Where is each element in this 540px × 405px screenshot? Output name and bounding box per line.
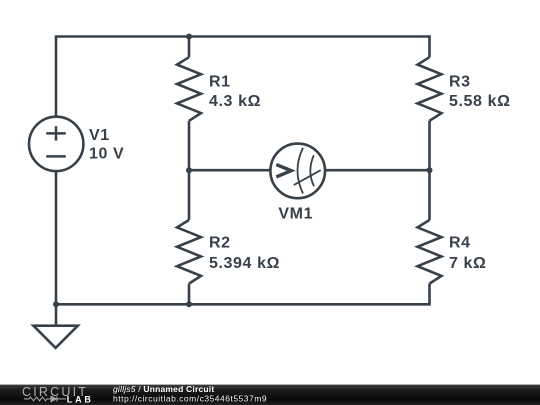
resistor R1 [177,57,201,121]
svg-text:R3: R3 [449,73,471,90]
node junction bottom-mid [186,301,192,307]
svg-text:R4: R4 [449,235,471,252]
wire ground stem [55,304,58,325]
ground [33,326,77,348]
svg-text:LAB: LAB [67,395,94,405]
wire bottom horizontal [56,284,430,305]
svg-text:R2: R2 [209,235,231,252]
svg-text:5.394 kΩ: 5.394 kΩ [209,255,280,272]
node junction top [186,34,192,40]
voltage source V1 [29,117,83,171]
wire R2 bottom lead [188,284,191,305]
svg-text:5.58 kΩ: 5.58 kΩ [449,93,511,110]
svg-text:10 V: 10 V [89,145,124,162]
wire middle horizontal right [325,169,430,172]
node junction mid-left [186,167,192,173]
svg-text:http://circuitlab.com/c35446t5: http://circuitlab.com/c35446t5537m9 [113,394,267,404]
wire left vertical lower [55,171,58,304]
wire right vertical R3-R4 [428,121,431,220]
resistor R4 [418,220,442,284]
voltmeter VM1 [270,144,325,199]
wire middle vertical R1-R2 [188,121,191,220]
svg-text:R1: R1 [209,73,231,90]
wire top horizontal [56,37,430,117]
resistor R3 [418,57,442,121]
wire R1 top lead [188,37,191,58]
svg-text:gilljs5 / Unnamed Circuit: gilljs5 / Unnamed Circuit [113,384,214,394]
CircuitLab logo resistor-diode glyph [24,396,66,401]
svg-text:V1: V1 [89,127,110,144]
resistor R2 [177,220,201,284]
svg-text:VM1: VM1 [278,206,313,223]
svg-text:4.3 kΩ: 4.3 kΩ [209,93,261,110]
svg-text:7 kΩ: 7 kΩ [449,255,486,272]
wire middle horizontal left [189,169,271,172]
node junction mid-right [427,167,433,173]
node junction bottom-left [53,301,59,307]
